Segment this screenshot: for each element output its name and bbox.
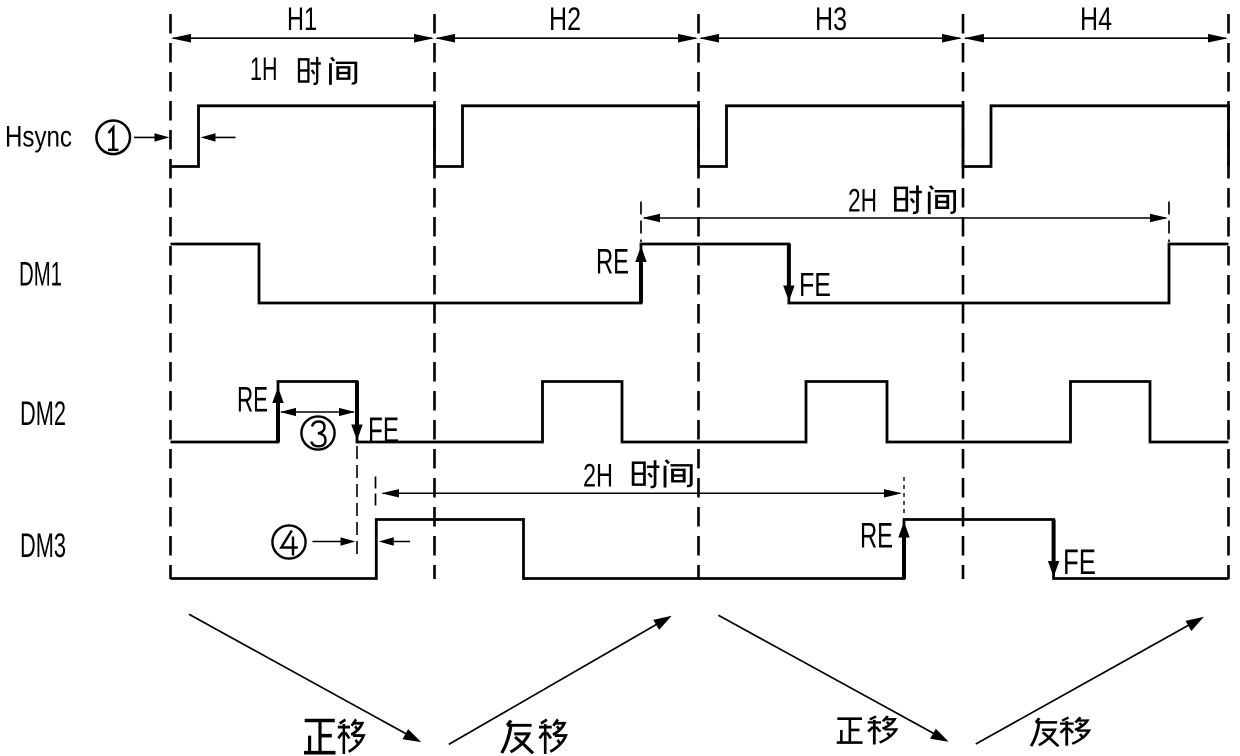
svg-text:H4: H4 [1080, 1, 1112, 37]
zigzag arrow 4 up-right [976, 617, 1204, 744]
zigzag arrow 2 up-right [449, 616, 672, 745]
svg-text:1H: 1H [250, 51, 278, 87]
svg-text:DM2: DM2 [20, 395, 66, 433]
label 2H jian 间 (DM3) [665, 460, 691, 488]
arrow from circled 4 to dashed guide [312, 537, 355, 545]
label zheng 正 (3) [837, 719, 863, 743]
label zheng 正 (1) [304, 720, 336, 752]
vertical grid dashed line at right edge [1227, 14, 1230, 579]
DM3 2H dimension arrow [381, 489, 902, 497]
DM3 FE falling edge arrow [1048, 520, 1059, 578]
label 2H jian 间 (DM1) [929, 186, 954, 214]
DM2 pulse width double arrow [280, 408, 355, 416]
svg-text:RE: RE [237, 380, 268, 419]
DM3 RE guide dots [903, 477, 905, 516]
DM2 waveform [171, 382, 1229, 443]
DM3 RE rising edge arrow [898, 522, 909, 579]
svg-text:FE: FE [1063, 543, 1096, 582]
svg-text:2H: 2H [583, 458, 613, 494]
DM1 FE falling edge arrow [783, 244, 794, 302]
svg-text:FE: FE [368, 411, 399, 450]
H4 dimension arrow [964, 34, 1228, 43]
label fan 反 (4) [1031, 718, 1058, 746]
Hsync waveform [171, 106, 1229, 167]
H2 dimension arrow [435, 34, 698, 43]
DM1 RE rising edge arrow [635, 246, 646, 303]
svg-text:RE: RE [860, 516, 893, 555]
circled 3 [301, 416, 334, 449]
label yi 移 (3) [868, 716, 896, 744]
label yi 移 (4) [1060, 717, 1089, 745]
circled 1 [96, 121, 130, 155]
H3 dimension arrow [699, 34, 962, 43]
circled 4 [272, 525, 305, 558]
svg-text:H2: H2 [549, 1, 581, 37]
DM2 RE rising edge arrow [272, 387, 283, 442]
label 2H shi 时 (DM1) [895, 185, 922, 213]
svg-text:2H: 2H [848, 182, 877, 218]
H1 dimension arrow [171, 34, 434, 43]
svg-text:H1: H1 [287, 1, 317, 37]
label yi 移 (1) [338, 719, 364, 754]
DM1 2H dimension arrow [642, 214, 1168, 222]
svg-text:DM3: DM3 [20, 527, 66, 565]
label 1H jian 间 [330, 58, 355, 85]
DM1 2H guide dashes left [640, 202, 642, 243]
arrow pointing left at Hsync rising edge [201, 133, 236, 141]
DM3 rise guide dashes [375, 477, 377, 507]
svg-text:Hsync: Hsync [5, 121, 72, 154]
DM1 2H guide dashes right [1168, 202, 1170, 243]
label 1H shi 时 [299, 57, 321, 84]
zigzag arrow 1 down-right [189, 614, 421, 742]
arrow pointing left at DM3 rising edge [379, 537, 410, 545]
DM1 waveform [171, 244, 1229, 303]
label fan 反 (1) [502, 721, 533, 754]
svg-text:H3: H3 [815, 1, 847, 37]
svg-text:RE: RE [596, 243, 629, 282]
DM2 FE falling edge arrow [351, 382, 362, 441]
arrow from circled 1 to grid line [134, 133, 170, 141]
zigzag arrow 3 down-right [718, 615, 948, 742]
vertical grid dashed line at H2 start [433, 14, 436, 579]
vertical grid dashed line at H1 start [169, 14, 172, 579]
svg-text:DM1: DM1 [19, 256, 62, 294]
svg-text:FE: FE [799, 266, 831, 303]
label 2H shi 时 (DM3) [633, 460, 659, 487]
vertical grid dashed line at H3 start [697, 14, 700, 579]
DM3 waveform [171, 520, 1229, 579]
vertical grid dashed line at H4 start [962, 14, 965, 579]
thin dashed guide below DM2 FE [356, 446, 358, 559]
label yi 移 (2) [539, 719, 566, 754]
